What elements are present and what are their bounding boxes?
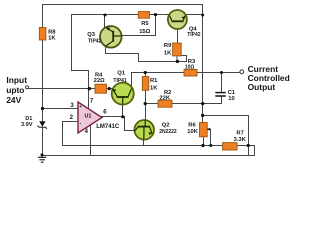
svg-text:1K: 1K bbox=[48, 36, 56, 42]
svg-text:22Ω: 22Ω bbox=[94, 78, 105, 84]
svg-text:TIP41: TIP41 bbox=[113, 78, 127, 84]
svg-text:Q2: Q2 bbox=[162, 123, 170, 129]
svg-text:R6: R6 bbox=[188, 123, 196, 129]
svg-text:TIP42: TIP42 bbox=[187, 32, 201, 38]
svg-text:10K: 10K bbox=[187, 129, 198, 135]
svg-text:1K: 1K bbox=[164, 50, 172, 56]
svg-text:1K: 1K bbox=[150, 85, 158, 91]
svg-text:10: 10 bbox=[228, 96, 234, 102]
svg-text:R9: R9 bbox=[164, 43, 172, 49]
svg-text:Input: Input bbox=[6, 75, 27, 85]
svg-text:Q3: Q3 bbox=[87, 32, 96, 38]
svg-text:U1: U1 bbox=[85, 114, 92, 120]
svg-text:Output: Output bbox=[248, 82, 276, 92]
svg-text:15Ω: 15Ω bbox=[139, 29, 150, 35]
svg-text:upto: upto bbox=[6, 85, 24, 95]
svg-text:10Ω: 10Ω bbox=[185, 64, 195, 70]
svg-text:+: + bbox=[79, 104, 82, 109]
svg-text:LM741C: LM741C bbox=[96, 124, 120, 130]
svg-text:3.9V: 3.9V bbox=[21, 122, 33, 128]
svg-text:R1: R1 bbox=[150, 78, 158, 84]
svg-text:R7: R7 bbox=[236, 131, 243, 137]
svg-text:3.3K: 3.3K bbox=[234, 137, 247, 143]
svg-text:22K: 22K bbox=[159, 95, 170, 101]
svg-text:R5: R5 bbox=[141, 21, 149, 27]
svg-text:TIP42: TIP42 bbox=[88, 38, 102, 44]
svg-text:2N2222: 2N2222 bbox=[159, 129, 177, 135]
svg-text:Q1: Q1 bbox=[117, 70, 126, 76]
svg-text:24V: 24V bbox=[6, 95, 21, 105]
